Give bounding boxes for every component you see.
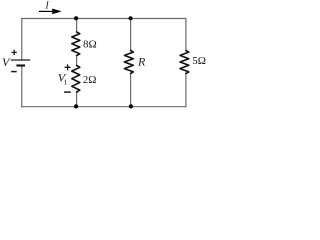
svg-text:5Ω: 5Ω — [192, 55, 206, 67]
svg-text:I: I — [44, 0, 49, 11]
svg-text:R: R — [137, 55, 146, 69]
svg-text:2Ω: 2Ω — [83, 74, 97, 86]
svg-text:1: 1 — [63, 77, 67, 86]
svg-text:8Ω: 8Ω — [83, 39, 97, 51]
svg-text:V: V — [2, 55, 11, 69]
